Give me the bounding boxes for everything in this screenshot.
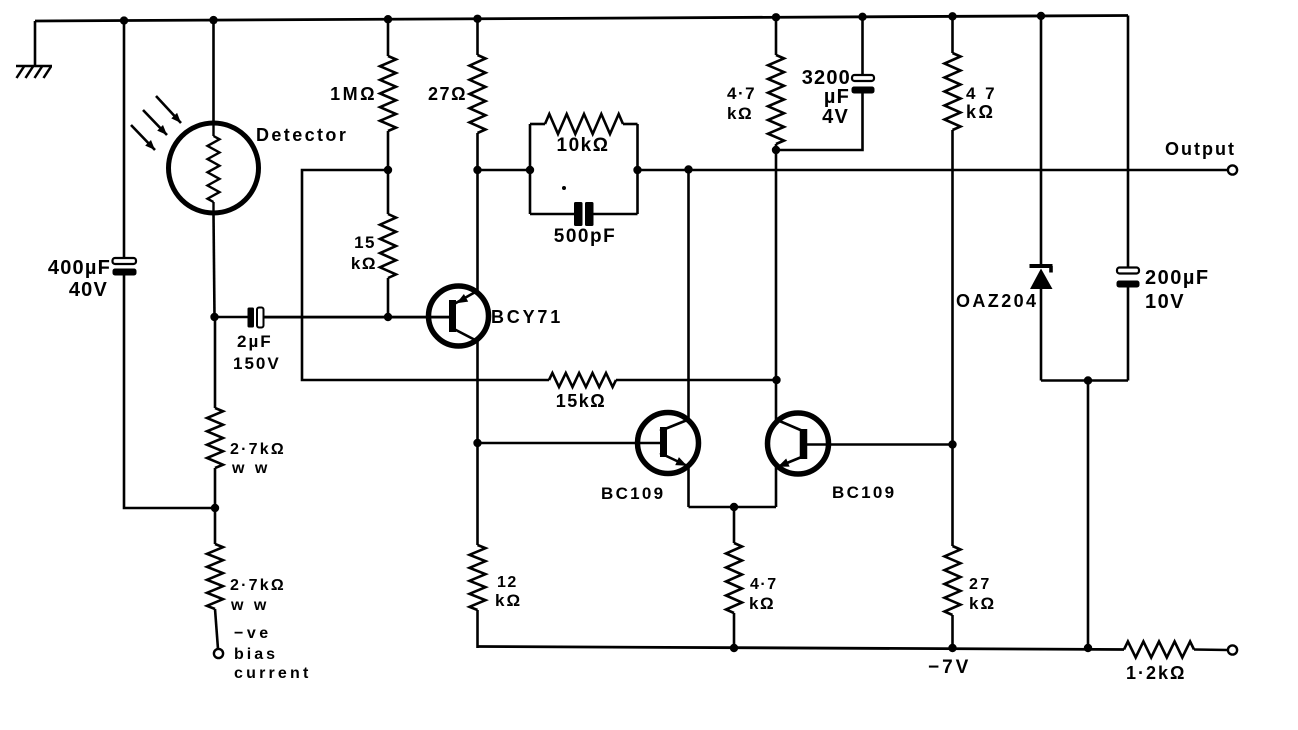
- svg-text:kΩ: kΩ: [727, 104, 753, 123]
- wire 47k down through output line: [951, 130, 954, 445]
- wire zener-200uF tie: [1041, 379, 1128, 382]
- capacitor 400uF 40V: [113, 258, 137, 276]
- svg-text:µF: µF: [824, 86, 850, 108]
- node tie-bottom rail: [1084, 644, 1092, 652]
- svg-text:150V: 150V: [233, 354, 281, 373]
- wire output line: [638, 169, 1228, 172]
- svg-text:BCY71: BCY71: [491, 307, 563, 327]
- node box left: [526, 166, 534, 174]
- wire base junction to 27k: [951, 445, 954, 547]
- resistor 12kOhm: [470, 545, 486, 610]
- svg-text:4·7: 4·7: [727, 84, 756, 103]
- resistor 4.7kOhm lower: [726, 543, 742, 613]
- svg-text:−ve: −ve: [234, 625, 272, 642]
- svg-text:10kΩ: 10kΩ: [557, 135, 610, 156]
- wire box left side: [529, 124, 532, 214]
- node rail-47k: [948, 12, 956, 20]
- node rail-400uF branch: [120, 16, 128, 24]
- svg-text:2·7kΩ: 2·7kΩ: [230, 441, 286, 458]
- wire tie to 4.7k: [733, 507, 736, 543]
- wire BC109-2 base: [807, 443, 953, 446]
- svg-text:bias: bias: [234, 646, 278, 663]
- transistor BCY71: [264, 286, 489, 346]
- svg-text:15kΩ: 15kΩ: [556, 391, 606, 411]
- wire 12k to bottom rail: [476, 610, 479, 648]
- wire 27k to rail: [951, 615, 954, 648]
- resistor 4.7kOhm upper: [768, 55, 784, 144]
- wire collector to 12k: [476, 443, 479, 545]
- transistor BC109 second: [768, 413, 829, 474]
- node output-BC109 collector: [684, 165, 692, 173]
- svg-text:40V: 40V: [69, 279, 108, 301]
- node rail-4.7k: [772, 13, 780, 21]
- wire 15k horiz to node B: [616, 379, 776, 382]
- wire 15k to base wire: [387, 278, 390, 317]
- node rail-zener: [1037, 12, 1045, 20]
- wire detector to base node: [214, 213, 215, 317]
- node rail-1M: [384, 15, 392, 23]
- resistor 1.2kOhm: [1124, 642, 1194, 658]
- svg-text:Detector: Detector: [256, 125, 348, 145]
- wire emitter node to box: [478, 169, 531, 172]
- wire rail to 400uF: [123, 21, 126, 258]
- wire node C down to BC109 collector: [775, 150, 778, 380]
- wire emitter up: [476, 170, 479, 292]
- svg-text:kΩ: kΩ: [966, 102, 995, 122]
- wire bottom rail: [478, 647, 1125, 650]
- node emitters-4.7k: [730, 503, 738, 511]
- wire top supply rail: [35, 16, 1128, 22]
- svg-text:4V: 4V: [822, 106, 849, 128]
- svg-text:1·2kΩ: 1·2kΩ: [1126, 663, 1186, 683]
- resistor 1MOhm: [380, 56, 396, 131]
- svg-text:−7V: −7V: [928, 657, 971, 678]
- svg-text:12: 12: [497, 574, 518, 591]
- capacitor 2uF 150V: [215, 308, 450, 328]
- terminal -ve bias: [214, 649, 223, 658]
- node BC109-2 base junction: [948, 440, 956, 448]
- svg-text:kΩ: kΩ: [495, 591, 522, 610]
- wire rail to zener: [1040, 16, 1043, 265]
- wire base node down: [214, 317, 217, 408]
- resistor 15kOhm vertical: [380, 214, 396, 278]
- wire 2.7k to bias junction: [214, 468, 217, 508]
- svg-text:Output: Output: [1165, 139, 1236, 159]
- resistor 27kOhm: [945, 546, 961, 615]
- terminal Output: [1228, 165, 1237, 174]
- ground: [16, 66, 52, 78]
- wire 1M to node A: [387, 131, 390, 170]
- node A 1M-15k junction: [384, 166, 392, 174]
- wire 4.7k to node C: [775, 144, 778, 150]
- wire rail to detector: [212, 20, 215, 124]
- wire BC109-1 collector up: [687, 170, 690, 420]
- resistor 10kOhm: [530, 114, 638, 134]
- node 27k-bottom rail: [948, 644, 956, 652]
- terminal bottom right: [1228, 645, 1237, 654]
- capacitor 3200uF 4V: [852, 17, 875, 94]
- wire bias junction down: [214, 508, 217, 544]
- speck: [562, 186, 566, 190]
- svg-text:w w: w w: [231, 460, 270, 477]
- svg-text:kΩ: kΩ: [749, 594, 775, 613]
- node 15k-base junction: [384, 313, 392, 321]
- node collector-12k junction: [473, 439, 481, 447]
- node C 4.7k-3200uF junction: [772, 146, 780, 154]
- wire 1.2k to terminal: [1194, 648, 1228, 651]
- wire ground drop: [34, 21, 37, 65]
- node rail-3200uF: [858, 13, 866, 21]
- svg-text:current: current: [234, 665, 312, 682]
- wire rail to 47k: [951, 16, 954, 53]
- diode OAZ204 zener: [1030, 266, 1053, 381]
- node rail-27R: [473, 15, 481, 23]
- svg-text:2µF: 2µF: [237, 332, 273, 351]
- resistor 15kOhm horizontal: [549, 373, 616, 387]
- wire BCY71 collector down: [476, 341, 479, 443]
- node detector-2uF junction: [210, 313, 218, 321]
- wire BC109-2 emitter down: [775, 467, 778, 507]
- wire 400uF to bias node: [124, 276, 215, 509]
- svg-text:kΩ: kΩ: [351, 254, 377, 273]
- svg-text:4·7: 4·7: [750, 576, 778, 593]
- svg-text:BC109: BC109: [601, 484, 665, 503]
- wire 4.7k lower to rail: [733, 613, 736, 648]
- wire to bias terminal: [215, 609, 218, 649]
- wire box right side: [636, 124, 639, 214]
- node 27R-emitter junction: [473, 166, 481, 174]
- node 4.7k-bottom rail: [730, 644, 738, 652]
- svg-text:kΩ: kΩ: [969, 594, 996, 613]
- node bias junction: [211, 504, 219, 512]
- wire node A to 15k: [387, 170, 390, 214]
- detector photocell: [169, 123, 259, 213]
- wire rail to 1M: [387, 19, 390, 56]
- svg-text:1MΩ: 1MΩ: [330, 84, 377, 104]
- svg-text:2·7kΩ: 2·7kΩ: [230, 577, 286, 594]
- wire node B to BC109-2 collector: [775, 380, 778, 421]
- svg-text:w w: w w: [230, 597, 269, 614]
- resistor 27Ohm: [470, 55, 486, 133]
- svg-text:200µF: 200µF: [1145, 267, 1210, 289]
- resistor 2.7kOhm ww lower: [207, 544, 223, 609]
- node tie midpoint: [1084, 376, 1092, 384]
- node B feedback junction: [772, 376, 780, 384]
- svg-text:27Ω: 27Ω: [428, 84, 467, 104]
- svg-text:OAZ204: OAZ204: [956, 291, 1038, 311]
- light arrows into detector: [131, 96, 181, 150]
- wire BC109-1 base: [478, 442, 661, 445]
- wire tie to bottom rail: [1087, 381, 1090, 649]
- wire rail to 4.7k: [775, 17, 778, 55]
- wire rail corner to 200uF: [1127, 16, 1130, 268]
- wire emitter tie: [689, 506, 777, 509]
- transistor BC109 first: [638, 413, 699, 474]
- wire node A feedback run: [302, 170, 549, 380]
- capacitor 500pF: [530, 202, 638, 226]
- wire BC109-1 emitter down: [687, 466, 690, 507]
- capacitor 200uF 10V: [1117, 268, 1140, 381]
- node box right: [633, 166, 641, 174]
- resistor 2.7kOhm ww upper: [207, 408, 223, 468]
- wire rail to 27R: [476, 19, 479, 55]
- svg-text:400µF: 400µF: [48, 257, 111, 279]
- wire node C to 3200uF: [776, 94, 863, 151]
- node rail-detector: [209, 16, 217, 24]
- svg-text:500pF: 500pF: [554, 226, 616, 247]
- svg-text:15: 15: [354, 233, 376, 252]
- svg-text:10V: 10V: [1145, 291, 1185, 313]
- resistor 47kOhm: [945, 53, 961, 130]
- svg-text:27: 27: [969, 576, 992, 593]
- wire 27R to emitter node: [476, 133, 479, 170]
- svg-text:4 7: 4 7: [966, 84, 997, 103]
- svg-text:BC109: BC109: [832, 483, 896, 502]
